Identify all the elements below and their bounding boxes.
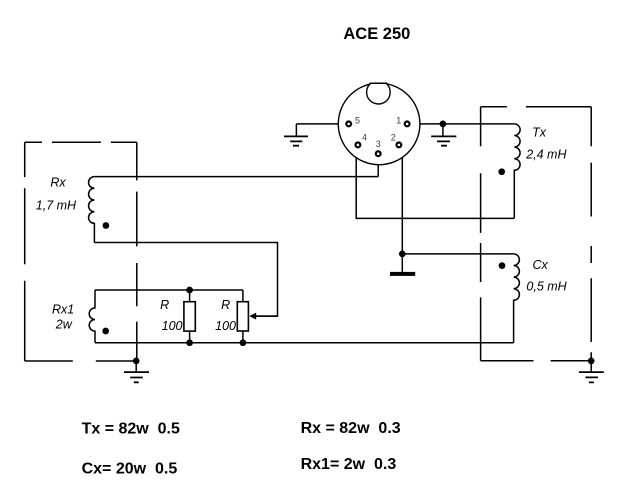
svg-text:Rx: Rx <box>50 176 66 190</box>
svg-text:1: 1 <box>396 116 401 126</box>
svg-text:ACE 250: ACE 250 <box>343 25 410 43</box>
svg-text:Cx: Cx <box>533 258 549 272</box>
svg-text:0,5 mH: 0,5 mH <box>526 280 567 294</box>
svg-text:R: R <box>160 298 169 312</box>
svg-text:2,4 mH: 2,4 mH <box>525 148 567 162</box>
svg-text:Rx = 82w 0.3: Rx = 82w 0.3 <box>301 420 401 437</box>
svg-text:5: 5 <box>355 116 360 126</box>
svg-text:Tx: Tx <box>532 126 547 140</box>
svg-text:100: 100 <box>162 319 183 333</box>
svg-text:Rx1= 2w 0.3: Rx1= 2w 0.3 <box>301 456 397 473</box>
svg-text:1,7 mH: 1,7 mH <box>36 199 77 213</box>
svg-text:Rx1: Rx1 <box>52 303 74 317</box>
svg-text:100: 100 <box>215 319 236 333</box>
svg-text:2: 2 <box>391 133 396 143</box>
svg-text:3: 3 <box>376 139 381 149</box>
svg-text:Tx = 82w 0.5: Tx = 82w 0.5 <box>82 421 180 438</box>
svg-text:4: 4 <box>362 133 367 143</box>
svg-text:2w: 2w <box>55 318 73 332</box>
svg-text:Cx= 20w 0.5: Cx= 20w 0.5 <box>82 461 178 478</box>
svg-text:R: R <box>221 298 230 312</box>
